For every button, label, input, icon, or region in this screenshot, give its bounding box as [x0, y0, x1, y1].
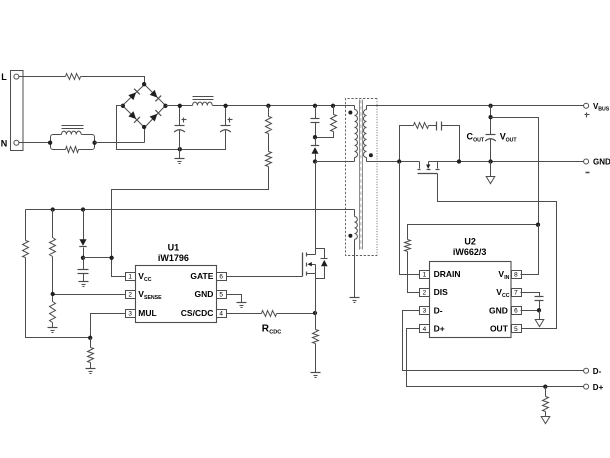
svg-text:L: L [1, 72, 7, 82]
svg-text:D-: D- [434, 305, 443, 315]
svg-text:D-: D- [593, 367, 602, 376]
svg-text:DRAIN: DRAIN [434, 269, 461, 279]
svg-text:GATE: GATE [190, 271, 213, 281]
svg-text:4: 4 [423, 326, 427, 333]
svg-text:2: 2 [423, 289, 427, 296]
svg-text:CS/CDC: CS/CDC [181, 308, 214, 318]
svg-text:GND: GND [195, 289, 214, 299]
svg-text:8: 8 [514, 271, 518, 278]
svg-text:3: 3 [128, 310, 132, 317]
svg-text:CC: CC [502, 293, 510, 299]
svg-text:SENSE: SENSE [144, 295, 162, 301]
svg-text:D+: D+ [434, 324, 445, 334]
svg-text:BUS: BUS [598, 106, 609, 112]
svg-text:iW662/3: iW662/3 [453, 247, 487, 257]
svg-text:2: 2 [128, 291, 132, 298]
svg-text:DIS: DIS [434, 287, 449, 297]
svg-text:OUT: OUT [473, 137, 485, 143]
svg-text:7: 7 [514, 289, 518, 296]
svg-text:6: 6 [219, 273, 223, 280]
svg-text:iW1796: iW1796 [158, 253, 189, 263]
svg-text:5: 5 [514, 326, 518, 333]
svg-text:IN: IN [504, 275, 509, 281]
svg-text:GND: GND [489, 305, 508, 315]
svg-text:5: 5 [219, 291, 223, 298]
svg-text:MUL: MUL [138, 308, 156, 318]
svg-text:OUT: OUT [506, 137, 518, 143]
svg-text:CC: CC [144, 277, 152, 283]
svg-text:CDC: CDC [269, 329, 281, 335]
svg-text:GND: GND [593, 158, 610, 167]
svg-text:4: 4 [219, 310, 223, 317]
svg-text:3: 3 [423, 308, 427, 315]
svg-text:1: 1 [423, 271, 427, 278]
svg-text:N: N [1, 138, 8, 148]
svg-text:1: 1 [128, 273, 132, 280]
svg-text:OUT: OUT [490, 324, 509, 334]
svg-text:6: 6 [514, 308, 518, 315]
svg-text:U2: U2 [464, 236, 476, 246]
svg-text:D+: D+ [593, 383, 604, 392]
svg-text:U1: U1 [168, 242, 180, 252]
